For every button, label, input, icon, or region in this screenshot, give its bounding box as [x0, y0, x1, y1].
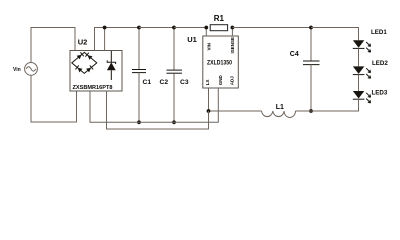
svg-text:LED2: LED2 — [372, 60, 388, 67]
schottky freewheel diode in U2 — [107, 51, 116, 80]
wire Vin bottom return to U2 AC2 — [31, 75, 77, 122]
resistor R1 — [210, 25, 227, 31]
node C4 top — [309, 26, 313, 30]
svg-text:C1: C1 — [143, 79, 152, 86]
wire LX node down to schottky anode rail — [107, 91, 209, 129]
inductor L1 — [262, 111, 296, 118]
node C2C3 top — [172, 26, 176, 30]
LED2 — [353, 66, 371, 78]
wire LED2 to LED3 — [358, 75, 360, 91]
wire C4 node to L1 right terminal — [296, 110, 312, 112]
node R1 right — [231, 26, 235, 30]
svg-text:VIN: VIN — [206, 43, 211, 51]
node C4 bottom — [309, 109, 313, 113]
svg-text:C4: C4 — [290, 51, 299, 58]
svg-text:LED3: LED3 — [372, 90, 388, 97]
wire GND pin to ground rail — [90, 88, 218, 122]
bridge diode top-left — [77, 52, 84, 59]
node LX junction — [207, 109, 211, 113]
svg-text:C2: C2 — [160, 79, 169, 86]
LED1 — [353, 40, 371, 52]
LED3 — [353, 91, 371, 103]
wire U2 plus output riser — [95, 28, 105, 51]
svg-text:ADJ: ADJ — [229, 76, 234, 85]
wire top rail C4 to LED string — [311, 28, 359, 41]
node C2C3 bottom — [172, 120, 176, 124]
bridge diode top-right — [85, 53, 92, 60]
capacitor C1 — [132, 28, 146, 123]
wire top rail U2 to C1 — [105, 27, 139, 29]
svg-text:Vin: Vin — [13, 67, 21, 73]
wire VIN pin stub — [205, 28, 207, 37]
node R1 left — [204, 26, 208, 30]
bridge rectifier U2 box — [70, 51, 122, 92]
svg-text:R1: R1 — [214, 14, 225, 23]
svg-text:C3: C3 — [180, 79, 189, 86]
wire top rail C2C3 to VIN pin — [174, 27, 206, 29]
wire LED1 to LED2 — [358, 48, 360, 66]
wire LX pin stub — [208, 88, 210, 111]
wire LED3 cathode down and left to C4 node — [311, 99, 359, 111]
bridge diode bottom-right — [86, 65, 93, 72]
svg-text:GND: GND — [218, 74, 223, 85]
svg-text:L1: L1 — [276, 104, 284, 111]
svg-text:ZXSBMR16PT8: ZXSBMR16PT8 — [73, 85, 113, 91]
svg-text:U1: U1 — [187, 35, 197, 44]
wire top rail C1 to C2C3 — [139, 27, 174, 29]
svg-text:ISENSE: ISENSE — [230, 37, 235, 54]
op-amp U1 ZXLD1350 box — [203, 36, 239, 88]
svg-text:LX: LX — [205, 79, 210, 85]
capacitor C4 — [303, 28, 320, 112]
svg-text:U2: U2 — [78, 38, 88, 47]
wire top rail ISENSE to C4 — [232, 27, 311, 29]
node C1 top — [137, 26, 141, 30]
bridge diamond — [72, 52, 97, 73]
capacitor C2 C3 — [167, 28, 183, 123]
svg-text:LED1: LED1 — [371, 29, 387, 36]
node C1 bottom — [137, 120, 141, 124]
node U2 diode cathode junction — [103, 26, 107, 30]
wire Vin top loop to U2 AC1 — [31, 28, 75, 63]
wire ISENSE pin stub — [231, 28, 233, 37]
bridge diode bottom-left — [75, 65, 82, 72]
svg-text:ZXLD1350: ZXLD1350 — [207, 60, 233, 66]
wire L1 left terminal to LX node — [209, 110, 262, 112]
AC source Vin — [25, 63, 38, 76]
